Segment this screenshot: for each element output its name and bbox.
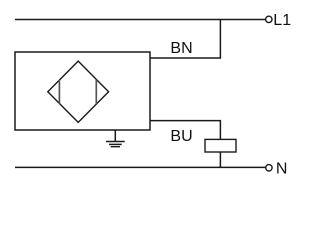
load resistor — [205, 139, 236, 152]
proximity switch symbol (diamond) — [48, 61, 109, 122]
svg-text:BU: BU — [170, 128, 192, 145]
wire L1 supply rail — [15, 19, 265, 21]
svg-text:BN: BN — [170, 40, 192, 57]
proximity sensor body — [15, 52, 150, 130]
svg-text:N: N — [276, 160, 288, 177]
wire N return rail — [15, 166, 265, 168]
diamond right chord — [95, 80, 97, 104]
wire BN (brown) — [150, 20, 220, 59]
diamond left chord — [58, 80, 60, 104]
terminal L1 — [266, 16, 272, 22]
terminal N — [266, 165, 272, 171]
wire BU (blue) — [150, 121, 220, 168]
svg-text:L1: L1 — [273, 12, 291, 29]
ground — [106, 130, 125, 147]
